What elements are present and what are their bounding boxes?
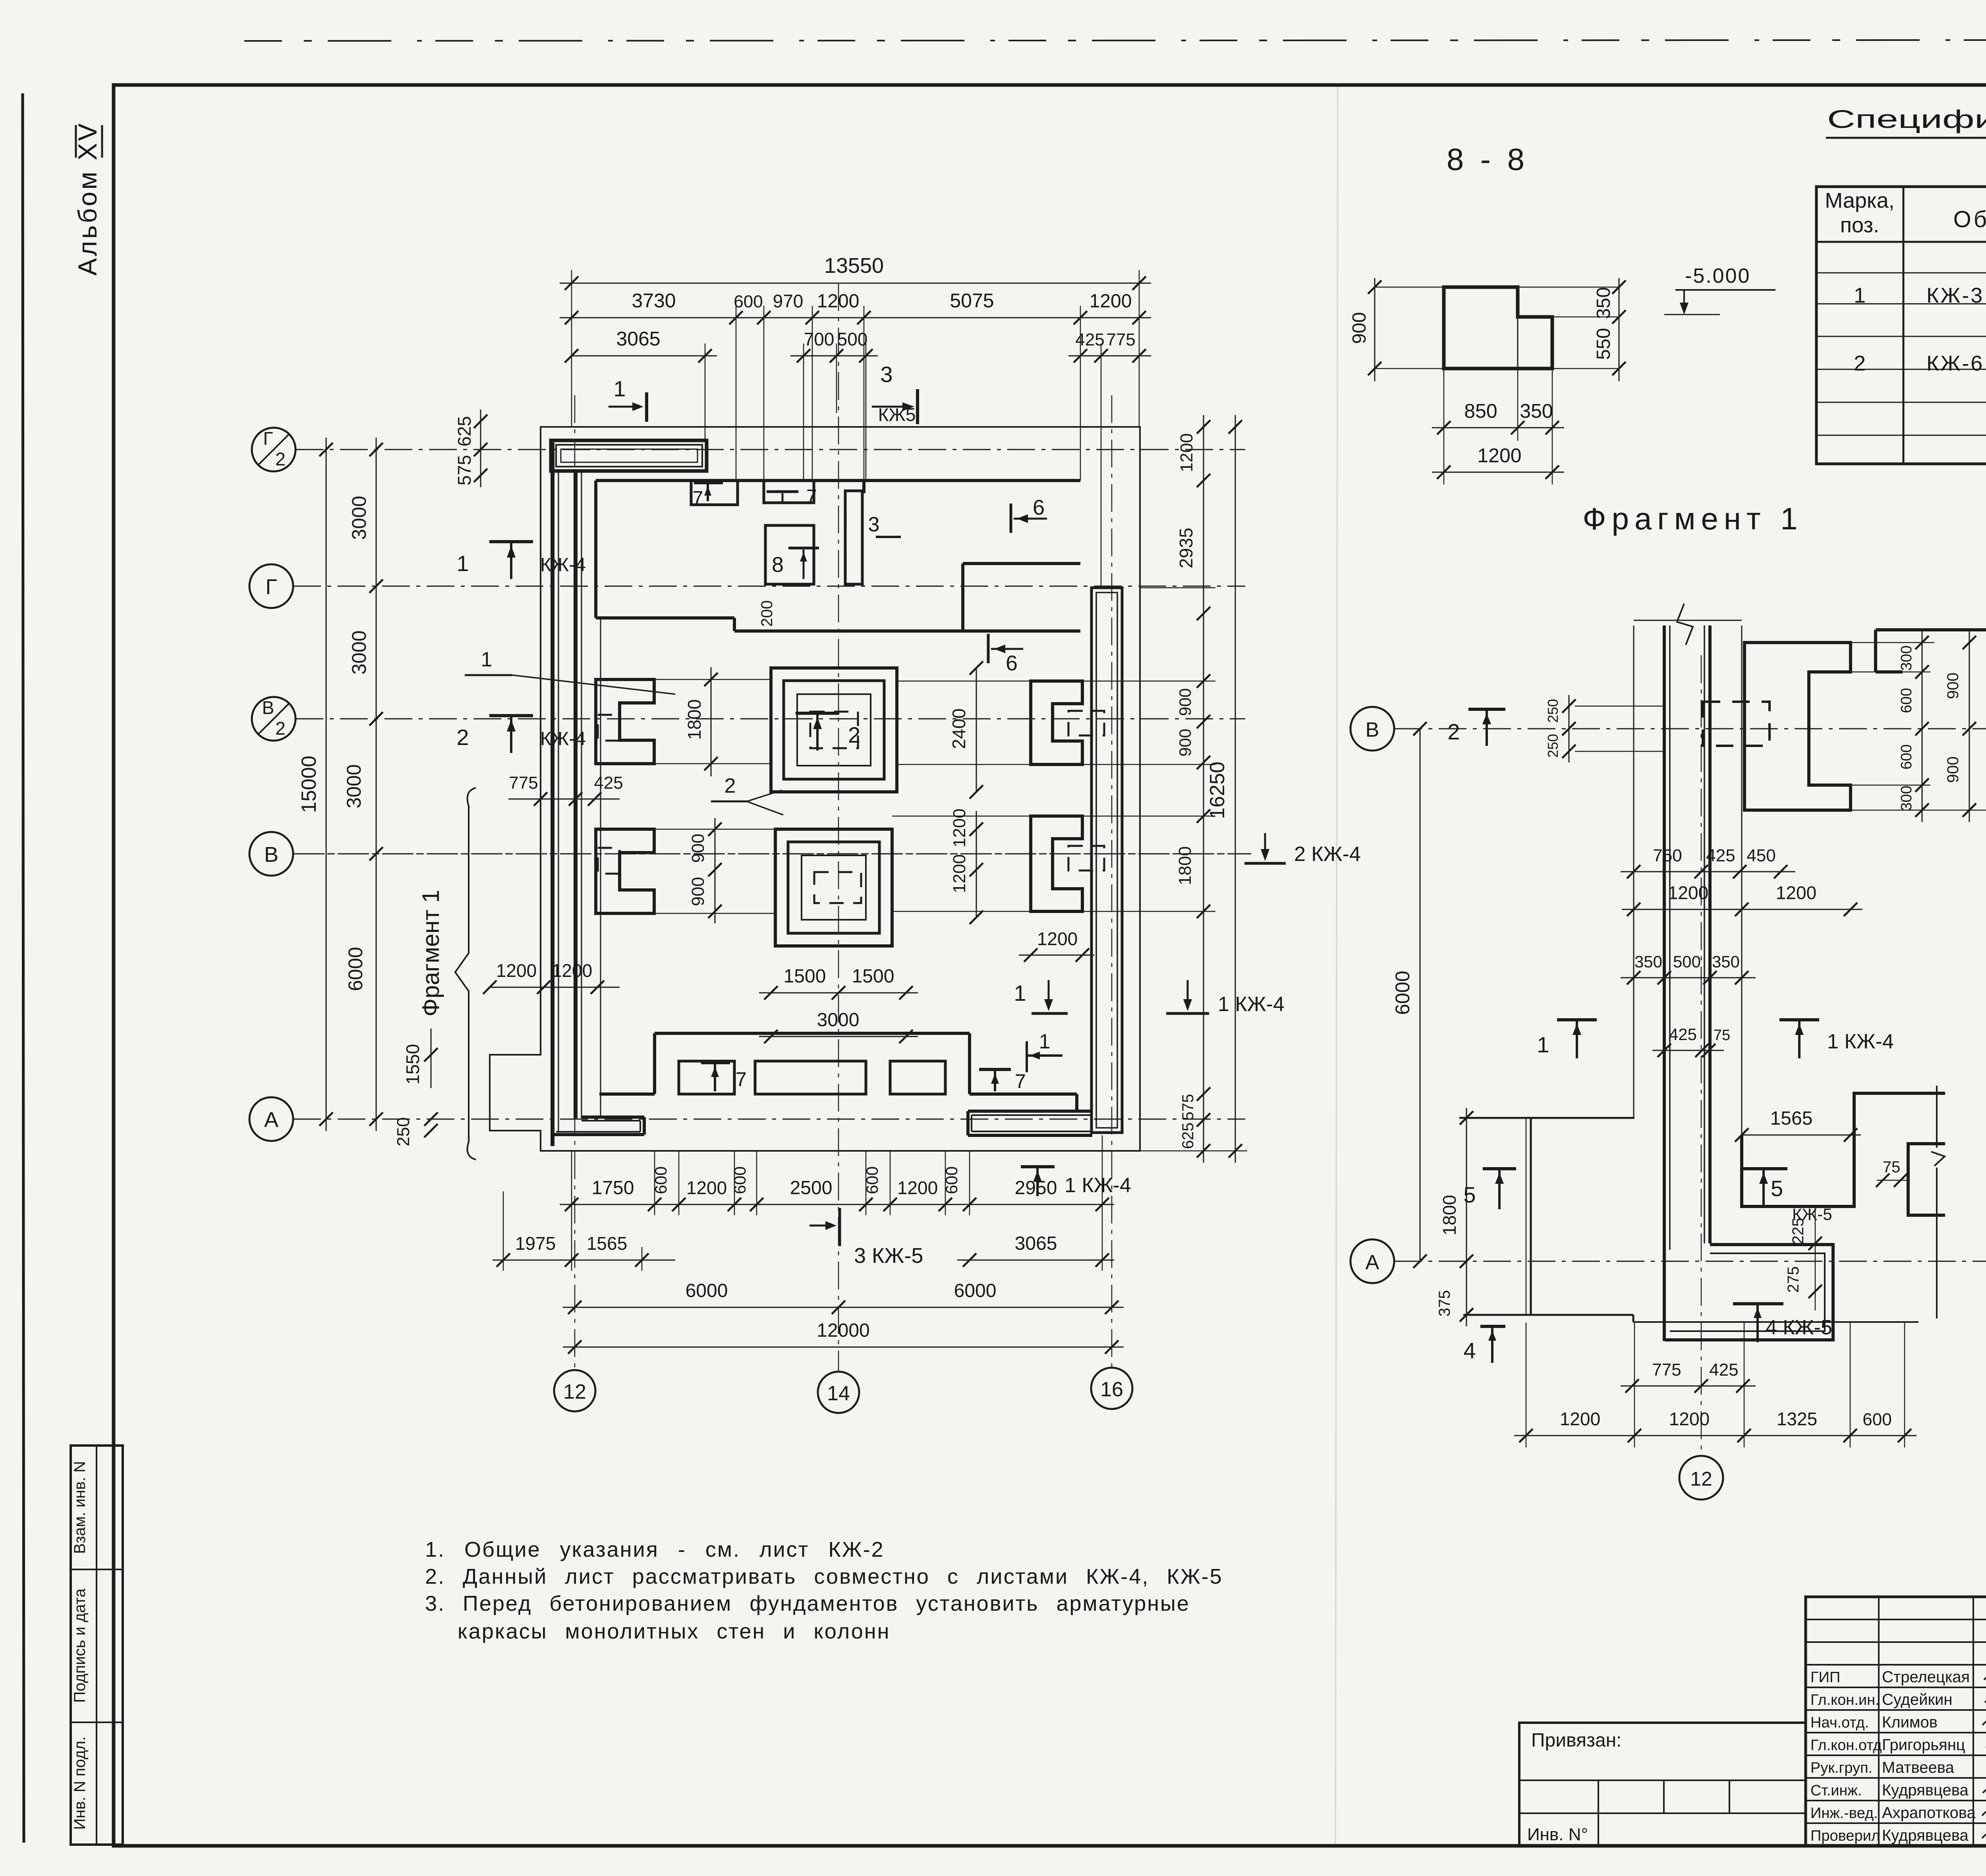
- svg-text:15000: 15000: [298, 756, 321, 813]
- svg-text:В: В: [1366, 718, 1379, 741]
- svg-text:625: 625: [1179, 1123, 1197, 1149]
- svg-text:КЖ-4: КЖ-4: [540, 554, 586, 575]
- svg-text:6000: 6000: [686, 1280, 728, 1301]
- svg-text:350: 350: [1520, 400, 1553, 422]
- svg-text:75: 75: [1714, 1027, 1730, 1044]
- svg-text:1200: 1200: [1669, 1409, 1710, 1429]
- svg-text:1: 1: [1854, 284, 1866, 307]
- svg-text:425: 425: [1669, 1025, 1697, 1044]
- svg-text:Ахрапоткова: Ахрапоткова: [1882, 1804, 1976, 1822]
- svg-text:2: 2: [275, 449, 286, 469]
- svg-text:А: А: [1366, 1251, 1379, 1274]
- svg-text:3065: 3065: [616, 328, 660, 350]
- svg-text:600: 600: [1862, 1410, 1891, 1429]
- svg-text:300: 300: [1898, 645, 1915, 670]
- svg-text:1 КЖ-4: 1 КЖ-4: [1064, 1174, 1131, 1197]
- svg-text:200: 200: [758, 600, 776, 627]
- svg-text:575: 575: [454, 455, 475, 486]
- svg-text:250: 250: [1545, 734, 1561, 758]
- svg-text:1: 1: [613, 376, 626, 401]
- svg-text:425: 425: [1706, 846, 1735, 865]
- svg-text:600: 600: [734, 292, 763, 311]
- svg-text:2 КЖ-4: 2 КЖ-4: [1294, 843, 1361, 866]
- svg-text:Инв. N°: Инв. N°: [1527, 1825, 1588, 1844]
- svg-text:12: 12: [563, 1380, 586, 1403]
- svg-text:Судейкин: Судейкин: [1882, 1691, 1952, 1708]
- svg-text:КЖ-3 ÷ КЖ-5: КЖ-3 ÷ КЖ-5: [1926, 284, 1986, 307]
- svg-text:Нач.отд.: Нач.отд.: [1810, 1714, 1869, 1731]
- svg-text:250: 250: [1545, 699, 1561, 723]
- svg-text:1. Общие указания - см. лист: 1. Общие указания - см. лист КЖ-2: [425, 1538, 885, 1561]
- svg-text:550: 550: [1593, 328, 1614, 360]
- svg-text:1200: 1200: [897, 1177, 938, 1198]
- svg-text:1565: 1565: [1770, 1108, 1813, 1129]
- svg-text:275: 275: [1785, 1266, 1802, 1293]
- svg-text:6: 6: [1033, 496, 1045, 519]
- svg-text:425: 425: [594, 773, 623, 793]
- svg-text:5075: 5075: [950, 290, 994, 312]
- svg-text:1200: 1200: [1477, 444, 1521, 467]
- svg-text:1550: 1550: [402, 1044, 423, 1085]
- svg-text:75: 75: [1883, 1158, 1901, 1176]
- svg-text:6000: 6000: [344, 947, 367, 991]
- svg-text:3. Перед бетонированием фун: 3. Перед бетонированием фундаментов уста…: [425, 1592, 1190, 1615]
- svg-text:700: 700: [804, 329, 835, 349]
- svg-text:775: 775: [509, 773, 538, 793]
- svg-text:6000: 6000: [954, 1280, 997, 1301]
- svg-text:8 - 8: 8 - 8: [1447, 142, 1528, 177]
- svg-text:В: В: [264, 843, 278, 867]
- svg-text:Климов: Климов: [1882, 1714, 1938, 1731]
- svg-text:16: 16: [1100, 1378, 1123, 1401]
- svg-text:1800: 1800: [1439, 1195, 1460, 1235]
- svg-text:В: В: [262, 697, 274, 718]
- svg-text:450: 450: [1746, 846, 1775, 865]
- svg-text:Альбом XV: Альбом XV: [73, 122, 102, 276]
- svg-text:Г: Г: [263, 428, 273, 449]
- svg-text:1: 1: [1537, 1032, 1549, 1057]
- svg-text:Г: Г: [265, 575, 277, 599]
- svg-text:1500: 1500: [852, 966, 894, 987]
- svg-text:Матвеева: Матвеева: [1882, 1759, 1955, 1776]
- svg-text:Привязан:: Привязан:: [1531, 1730, 1622, 1751]
- svg-text:Гл.кон.ин.: Гл.кон.ин.: [1810, 1692, 1880, 1708]
- svg-text:Подпись и дата: Подпись и дата: [71, 1588, 89, 1702]
- svg-text:Фрагмент 1: Фрагмент 1: [417, 890, 444, 1017]
- svg-text:7: 7: [1015, 1070, 1026, 1092]
- svg-text:3 КЖ-5: 3 КЖ-5: [854, 1244, 923, 1268]
- svg-text:2: 2: [724, 774, 736, 797]
- svg-text:300: 300: [1898, 786, 1915, 811]
- svg-text:1200: 1200: [1668, 882, 1708, 903]
- svg-text:970: 970: [773, 291, 804, 311]
- svg-text:1325: 1325: [1777, 1409, 1817, 1429]
- svg-text:1: 1: [1039, 1030, 1051, 1053]
- svg-text:850: 850: [1464, 400, 1497, 422]
- svg-text:Инж.-вед.: Инж.-вед.: [1810, 1805, 1878, 1822]
- svg-text:425: 425: [1709, 1360, 1738, 1380]
- svg-text:каркасы монолитных стен и: каркасы монолитных стен и колонн: [458, 1619, 890, 1643]
- svg-text:А: А: [264, 1108, 278, 1132]
- svg-text:2: 2: [456, 725, 469, 750]
- svg-text:7: 7: [693, 488, 703, 509]
- svg-text:900: 900: [1349, 312, 1370, 344]
- svg-text:ГИП: ГИП: [1810, 1669, 1840, 1686]
- svg-text:КЖ5: КЖ5: [878, 404, 916, 425]
- svg-text:350: 350: [1634, 952, 1662, 971]
- svg-text:3000: 3000: [817, 1009, 860, 1031]
- svg-text:2: 2: [1854, 351, 1866, 375]
- svg-text:2: 2: [1447, 719, 1460, 744]
- svg-text:775: 775: [1106, 330, 1135, 349]
- svg-text:2935: 2935: [1176, 528, 1196, 568]
- svg-text:13550: 13550: [824, 254, 884, 278]
- svg-text:3: 3: [868, 513, 880, 536]
- svg-text:900: 900: [1176, 688, 1194, 716]
- svg-text:1200: 1200: [950, 854, 969, 893]
- svg-text:1750: 1750: [592, 1177, 634, 1199]
- svg-text:1200: 1200: [1177, 433, 1196, 472]
- svg-text:Гл.кон.отд: Гл.кон.отд: [1810, 1737, 1882, 1754]
- svg-text:-5.000: -5.000: [1685, 264, 1750, 288]
- svg-text:14: 14: [827, 1382, 850, 1405]
- svg-text:1: 1: [456, 551, 469, 576]
- svg-text:1500: 1500: [784, 966, 826, 987]
- svg-text:900: 900: [688, 834, 708, 863]
- svg-text:1200: 1200: [950, 809, 969, 847]
- svg-text:1200: 1200: [1037, 928, 1078, 949]
- svg-text:600: 600: [1898, 688, 1915, 713]
- svg-text:900: 900: [1176, 729, 1194, 757]
- svg-text:1 КЖ-4: 1 КЖ-4: [1827, 1030, 1894, 1053]
- svg-text:600: 600: [730, 1166, 749, 1194]
- svg-text:1800: 1800: [1175, 846, 1195, 885]
- svg-text:500: 500: [837, 329, 868, 349]
- svg-text:4 КЖ-5: 4 КЖ-5: [1766, 1316, 1832, 1339]
- svg-text:12000: 12000: [817, 1320, 869, 1341]
- svg-text:Спецификация к схеме распол: Спецификация к схеме расположения: [1827, 105, 1986, 133]
- svg-text:600: 600: [1898, 744, 1915, 769]
- svg-text:500: 500: [1673, 952, 1701, 971]
- svg-text:3730: 3730: [632, 290, 676, 312]
- svg-text:350: 350: [1593, 287, 1614, 319]
- svg-text:1: 1: [481, 648, 493, 671]
- svg-text:1565: 1565: [587, 1233, 627, 1254]
- svg-text:1200: 1200: [1090, 291, 1132, 312]
- svg-text:Рук.груп.: Рук.груп.: [1810, 1760, 1872, 1776]
- svg-text:Обозначение: Обозначение: [1953, 207, 1986, 232]
- svg-text:775: 775: [1652, 1360, 1681, 1380]
- svg-text:2950: 2950: [1015, 1177, 1057, 1199]
- svg-text:2400: 2400: [949, 708, 969, 749]
- svg-text:Кудрявцева: Кудрявцева: [1882, 1781, 1969, 1799]
- svg-text:3065: 3065: [1015, 1233, 1057, 1254]
- svg-text:3000: 3000: [348, 630, 370, 674]
- svg-text:3000: 3000: [343, 764, 365, 808]
- svg-text:5: 5: [1463, 1182, 1476, 1207]
- svg-text:575: 575: [1179, 1094, 1197, 1121]
- svg-text:900: 900: [1944, 673, 1962, 699]
- svg-text:350: 350: [1712, 952, 1740, 971]
- svg-text:1800: 1800: [684, 699, 705, 740]
- svg-text:1200: 1200: [1776, 882, 1816, 903]
- svg-text:625: 625: [454, 416, 475, 447]
- svg-text:Взам. инв. N: Взам. инв. N: [71, 1461, 89, 1554]
- svg-text:2. Данный лист рассматриват: 2. Данный лист рассматривать совместно с…: [425, 1565, 1223, 1588]
- svg-text:3: 3: [880, 362, 893, 387]
- svg-text:900: 900: [1944, 757, 1962, 783]
- svg-text:КЖ-5: КЖ-5: [1792, 1205, 1832, 1224]
- svg-text:5: 5: [1771, 1176, 1783, 1201]
- svg-text:Фрагмент 1: Фрагмент 1: [1582, 501, 1803, 536]
- svg-text:16250: 16250: [1206, 762, 1229, 819]
- svg-text:7: 7: [736, 1068, 747, 1090]
- svg-text:6: 6: [1006, 651, 1018, 675]
- svg-text:375: 375: [1436, 1290, 1453, 1317]
- svg-text:1 КЖ-4: 1 КЖ-4: [1218, 993, 1285, 1016]
- svg-text:2: 2: [848, 722, 860, 747]
- svg-text:Стрелецкая: Стрелецкая: [1882, 1668, 1970, 1686]
- svg-text:КЖ-4: КЖ-4: [540, 728, 586, 749]
- svg-text:6000: 6000: [1391, 971, 1414, 1015]
- svg-text:1200: 1200: [817, 291, 860, 312]
- svg-text:КЖ-6: КЖ-6: [1926, 351, 1984, 375]
- svg-text:3000: 3000: [348, 496, 370, 540]
- svg-text:425: 425: [1075, 330, 1104, 349]
- svg-text:1200: 1200: [496, 960, 537, 981]
- svg-text:250: 250: [394, 1117, 413, 1146]
- svg-text:Кудрявцева: Кудрявцева: [1882, 1827, 1969, 1844]
- svg-text:900: 900: [688, 877, 708, 906]
- svg-text:Григорьянц: Григорьянц: [1882, 1736, 1965, 1754]
- svg-text:2: 2: [275, 718, 286, 739]
- svg-text:1200: 1200: [552, 960, 592, 981]
- svg-text:4: 4: [1463, 1338, 1476, 1363]
- svg-text:750: 750: [1653, 846, 1682, 865]
- svg-text:Марка,: Марка,: [1825, 189, 1895, 212]
- svg-text:1200: 1200: [686, 1177, 727, 1198]
- svg-text:поз.: поз.: [1840, 213, 1879, 237]
- svg-text:Ст.инж.: Ст.инж.: [1810, 1782, 1862, 1799]
- svg-text:1975: 1975: [515, 1233, 556, 1254]
- svg-text:7: 7: [806, 486, 817, 507]
- svg-text:1: 1: [1014, 980, 1026, 1006]
- svg-text:1200: 1200: [1560, 1409, 1600, 1429]
- svg-text:12: 12: [1690, 1468, 1712, 1490]
- svg-text:Проверил: Проверил: [1810, 1828, 1880, 1844]
- svg-text:8: 8: [772, 553, 784, 577]
- svg-text:Инв. N подл.: Инв. N подл.: [71, 1736, 89, 1830]
- svg-text:2500: 2500: [790, 1177, 833, 1199]
